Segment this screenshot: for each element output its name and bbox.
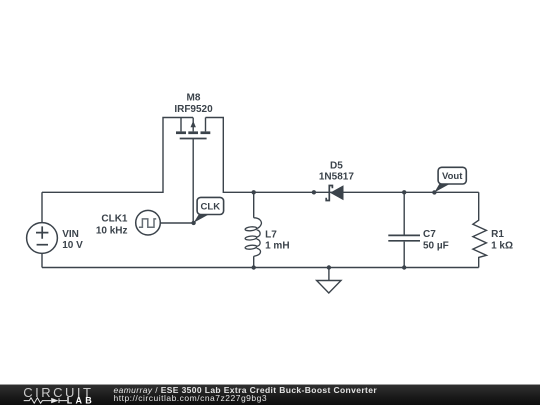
svg-text:10 V: 10 V [62,240,83,251]
svg-text:IRF9520: IRF9520 [174,104,213,115]
svg-text:CLK1: CLK1 [101,214,128,225]
svg-text:Vout: Vout [442,171,463,182]
svg-text:L7: L7 [265,230,277,241]
svg-text:VIN: VIN [62,229,79,240]
svg-text:M8: M8 [187,92,201,103]
svg-text:http://circuitlab.com/cna7z227: http://circuitlab.com/cna7z227g9bg3 [114,393,268,403]
svg-text:D5: D5 [330,160,343,171]
svg-text:50 µF: 50 µF [423,241,449,252]
svg-text:R1: R1 [491,229,504,240]
svg-text:10 kHz: 10 kHz [96,225,128,236]
svg-text:1 mH: 1 mH [265,240,289,251]
svg-text:CLK: CLK [201,201,221,212]
svg-text:1N5817: 1N5817 [319,172,354,183]
svg-text:1 kΩ: 1 kΩ [491,241,513,252]
svg-text:LAB: LAB [67,395,95,405]
svg-text:C7: C7 [423,229,436,240]
